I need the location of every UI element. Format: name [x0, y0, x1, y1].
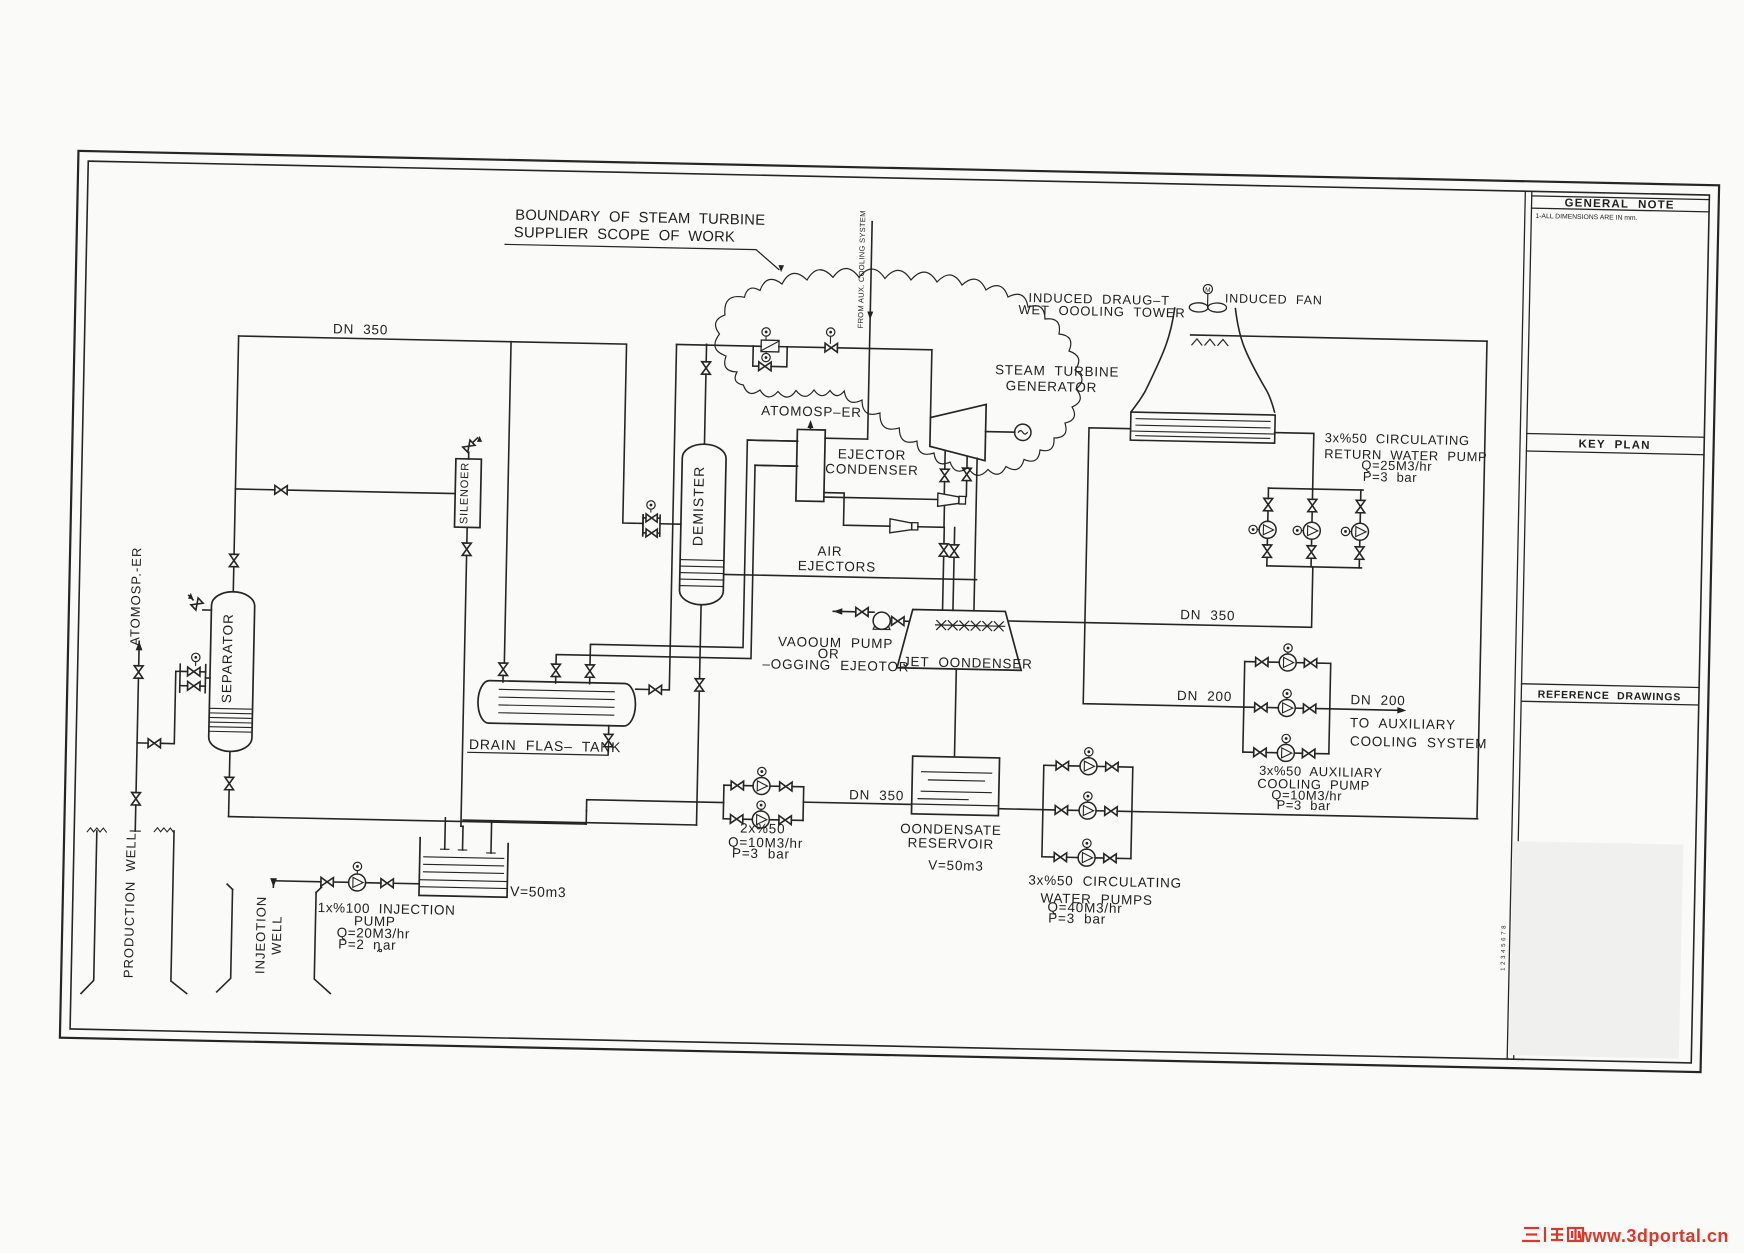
valve jet condenser inlet 1 — [939, 544, 948, 557]
valve tank drain — [604, 734, 613, 747]
pump circ b2 — [1079, 802, 1096, 819]
valve manifold branch 1 — [188, 667, 201, 676]
boundary underline and leader — [505, 244, 780, 269]
2x pump headers — [722, 785, 725, 819]
basin inlet pipe 2 (silencer drain) — [462, 826, 464, 850]
valve silencer drain — [462, 543, 471, 556]
pipe demister drain — [700, 605, 702, 679]
pipe from aux cooling — [868, 222, 873, 439]
valve 2x b2 right — [779, 816, 792, 825]
svg-text:ATOMOSP–ER: ATOMOSP–ER — [761, 403, 862, 420]
valve vacuum pump left — [856, 607, 869, 616]
valve return b2 bottom — [1307, 546, 1316, 559]
2x pump branch 2 — [723, 818, 730, 820]
pipe tower basin to left loop — [1083, 428, 1249, 707]
svg-text:DN 350: DN 350 — [333, 321, 388, 337]
control valve bypass — [753, 346, 759, 366]
valve jet condenser inlet 2 — [950, 545, 959, 558]
pipe condenser to ejector 1 — [824, 497, 938, 499]
aux pump branch 1 — [1245, 661, 1256, 663]
svg-text:DN 350: DN 350 — [849, 787, 904, 803]
valve injection 2 — [381, 879, 394, 888]
return pump headers — [1268, 488, 1363, 490]
pipe valve to vacuum pump — [868, 611, 874, 613]
pipe DN350 main header — [235, 336, 647, 523]
svg-text:DN 200: DN 200 — [1350, 692, 1405, 708]
vacuum pump discharge arrow — [833, 608, 842, 615]
valve circ b1 left — [1056, 761, 1069, 770]
demister vessel — [679, 444, 726, 605]
instrument aux b3 — [1282, 734, 1291, 743]
pipe turbine to generator — [986, 431, 1015, 434]
production well symbol — [81, 831, 97, 994]
circ pump branch 2 — [1043, 809, 1055, 811]
pipe branch to separator manifold — [137, 742, 148, 744]
basin inlet pipe 3 (demister drain) — [490, 823, 493, 853]
pipe pump to valve — [366, 882, 381, 884]
instrument on manifold — [192, 653, 201, 662]
instrument circ b1 — [1085, 748, 1094, 757]
separator hatch lines — [209, 707, 252, 710]
valve aux b2 left — [1255, 703, 1268, 712]
valve return b3 top — [1356, 500, 1365, 513]
svg-text:P=2 ȵar: P=2 ȵar — [338, 937, 396, 953]
svg-text:GENERATOR: GENERATOR — [1006, 378, 1098, 395]
production well zigzag left — [87, 828, 106, 832]
pipe tank inlet 3 — [589, 677, 591, 683]
svg-text:P=3 bar: P=3 bar — [1363, 469, 1418, 485]
return pump branch 3 — [1360, 490, 1362, 500]
valve circ b1 right — [1106, 762, 1119, 771]
pipe jet condenser drain — [954, 669, 956, 756]
return pump branch 2 — [1311, 489, 1313, 499]
pipe 2x discharge DN350 — [803, 802, 911, 804]
condensate basin V=50m3 — [419, 838, 508, 898]
pipe branch riser — [160, 671, 180, 744]
cooling tower shell — [1131, 307, 1175, 413]
pipe drain drop at 491 — [491, 821, 493, 823]
return pump branch 1 — [1267, 488, 1269, 498]
pipe vacuum pump to jet condenser — [890, 620, 891, 622]
label underline leader — [468, 752, 608, 755]
valve on production riser — [131, 792, 140, 805]
instrument 2x b2 — [757, 801, 766, 810]
instrument demister manifold — [647, 501, 656, 510]
separator manifold headers — [179, 664, 182, 692]
pipe tower hot water top line — [1191, 335, 1487, 341]
valve tank inlet 3 — [585, 665, 594, 678]
title block left double line — [1507, 191, 1525, 1059]
key plan box — [1527, 434, 1705, 438]
svg-text:STEAM TURBINE: STEAM TURBINE — [995, 362, 1120, 380]
reservoir water lines — [922, 772, 992, 773]
sheet inner border — [70, 161, 1709, 1063]
pipe valve to pump — [333, 881, 348, 883]
svg-text:P=3 bar: P=3 bar — [1048, 910, 1106, 926]
instrument return b3 — [1341, 527, 1350, 536]
svg-text:1 2 3 4 5 6 7 8: 1 2 3 4 5 6 7 8 — [1501, 925, 1508, 971]
pipe manifold to demister — [660, 523, 681, 525]
valve on atmosphere riser — [134, 666, 143, 679]
atmosphere vent arrow (left) — [136, 641, 143, 650]
pipe ejector drains to jet condenser — [943, 527, 945, 543]
valve return b2 top — [1308, 499, 1317, 512]
demister hatch lines — [680, 559, 724, 562]
pipe tank vapor to main line — [670, 344, 676, 645]
pipe reservoir to circ pumps — [998, 808, 1042, 811]
svg-text:KEY PLAN: KEY PLAN — [1578, 438, 1650, 452]
valve main steam — [825, 343, 838, 352]
svg-text:EJECTOR: EJECTOR — [838, 446, 907, 462]
pipe injection line — [274, 880, 321, 883]
aux pump branch 2 — [1244, 706, 1255, 708]
svg-text:PRODUCTION WELL: PRODUCTION WELL — [121, 832, 139, 978]
svg-text:V=50m3: V=50m3 — [928, 857, 984, 873]
pipe turbine drain stub 1 — [944, 451, 946, 469]
pipe turbine exhaust — [974, 458, 977, 610]
drain flash tank inner lines — [499, 689, 614, 691]
valve manifold branch 2 — [188, 681, 201, 690]
valve return b1 bottom — [1263, 545, 1272, 558]
valve demister riser — [702, 362, 711, 375]
production well zigzag right — [154, 828, 173, 832]
valve return b3 bottom — [1355, 547, 1364, 560]
valve aux b1 right — [1304, 658, 1317, 667]
svg-text:CONDENSER: CONDENSER — [825, 461, 919, 478]
demister manifold — [642, 515, 644, 536]
circ pump branch 3 — [1042, 856, 1054, 858]
valve tank right — [649, 685, 662, 694]
steam turbine — [930, 403, 987, 460]
instrument main steam valve — [826, 328, 835, 337]
valve 2x b1 left — [731, 781, 744, 790]
pipe basin line to 2x pumps — [586, 800, 723, 814]
svg-text:3x%50 CIRCULATING: 3x%50 CIRCULATING — [1325, 430, 1470, 448]
pump circ b3 — [1078, 849, 1095, 866]
valve circ b3 right — [1104, 854, 1117, 863]
pipe right loop down — [1477, 341, 1487, 819]
sheet outer border — [60, 151, 1719, 1072]
svg-text:JET OONDENSER: JET OONDENSER — [903, 654, 1033, 672]
valve vacuum pump right — [892, 617, 905, 626]
pipe to production well — [134, 805, 137, 831]
pipe separator top riser — [232, 567, 235, 592]
svg-text:V=50m3: V=50m3 — [510, 883, 566, 900]
pipe ejector 2 discharge — [918, 506, 945, 527]
instrument aux b1 — [1284, 644, 1293, 653]
tower basin fill lines — [1136, 419, 1270, 422]
pipe return pumps to basin — [1273, 433, 1313, 489]
pipe DN350 to demister manifold — [642, 515, 644, 524]
pipe demister drain run — [463, 820, 696, 825]
svg-text:DN 200: DN 200 — [1177, 688, 1232, 704]
svg-text:DEMISTER: DEMISTER — [689, 466, 707, 547]
pump 2x b1 — [753, 777, 770, 794]
silencer vessel — [454, 459, 481, 528]
pipe jet condenser DN350 to tower — [1009, 562, 1312, 628]
pipe merge jog — [585, 811, 587, 824]
instrument circ b2 — [1084, 792, 1093, 801]
separator manifold branch 1 — [180, 670, 187, 672]
valve tank inlet 2 — [551, 664, 560, 677]
cloud boundary of supplier scope — [712, 266, 1084, 478]
valve on silencer line — [275, 485, 288, 494]
pump 2x b2 — [752, 811, 769, 828]
tower basin — [1130, 412, 1275, 443]
separator relief valve — [203, 609, 211, 611]
pump circ b1 — [1080, 758, 1097, 775]
valve demister manifold 2 — [646, 529, 657, 537]
condensate reservoir — [911, 756, 999, 816]
svg-text:RESERVOIR: RESERVOIR — [907, 835, 994, 852]
valve circ b3 left — [1054, 853, 1067, 862]
pipe condenser to ejector 2 — [823, 493, 890, 527]
injection well symbol — [217, 889, 233, 992]
svg-text:GENERAL NOTE: GENERAL NOTE — [1564, 197, 1674, 211]
pipe aux discharge DN200 — [1330, 709, 1403, 711]
svg-text:AIR: AIR — [817, 543, 842, 559]
ejector condenser vent arrow — [809, 426, 811, 429]
aux pump branch 3 — [1243, 751, 1254, 753]
tower spray carets — [1192, 339, 1202, 345]
instrument injection pump — [353, 862, 362, 871]
air ejector 1 — [938, 493, 959, 507]
svg-text:SILENOER: SILENOER — [458, 462, 471, 524]
induced fan blades — [1189, 303, 1208, 313]
svg-text:DN 350: DN 350 — [1180, 607, 1235, 623]
instrument circ b3 — [1083, 839, 1092, 848]
title block grey area — [1509, 841, 1683, 1059]
pipe aux to ejector condenser — [825, 437, 867, 440]
instrument 2x b1 — [758, 767, 767, 776]
valve circ b2 right — [1105, 807, 1118, 816]
pipe atmosphere riser — [136, 678, 138, 792]
valve return b1 top — [1264, 498, 1273, 511]
svg-text:M: M — [1205, 287, 1211, 294]
svg-text:www.3dportal.cn: www.3dportal.cn — [1577, 1226, 1729, 1246]
svg-text:P=3 bar: P=3 bar — [1276, 797, 1331, 813]
silencer relief valve — [468, 452, 470, 459]
general note box — [1532, 196, 1710, 200]
valve aux b3 left — [1254, 748, 1267, 757]
valve aux b2 right — [1303, 704, 1316, 713]
valve separator drain — [225, 777, 234, 790]
air ejector 2 — [890, 519, 912, 533]
instrument above control valve — [762, 328, 771, 337]
svg-text:INJEOTION: INJEOTION — [252, 896, 269, 975]
pipe manifold to separator shell — [205, 677, 209, 679]
pipe silencer drain — [466, 527, 468, 543]
pipe ejector drain A — [747, 440, 797, 441]
basin water lines — [424, 857, 504, 859]
pump aux b2 — [1278, 699, 1295, 716]
pipe circ discharge — [1132, 812, 1478, 819]
svg-text:TO AUXILIARY: TO AUXILIARY — [1350, 715, 1456, 732]
circ pump headers — [1042, 765, 1044, 856]
valve separator top — [229, 554, 238, 567]
valve demister drain — [695, 679, 704, 692]
watermark 3dportal — [1522, 1227, 1583, 1242]
2x pump branch 1 — [724, 784, 731, 786]
pipe main steam line — [677, 344, 762, 346]
valve injection 1 — [321, 877, 334, 886]
valve demister manifold 1 — [646, 514, 657, 522]
valve turbine stub 2 — [962, 468, 971, 481]
jet condenser vessel — [897, 609, 1022, 670]
svg-text:P=3 bar: P=3 bar — [732, 845, 790, 861]
induced fan motor — [1203, 284, 1212, 293]
drain flash tank vessel — [478, 680, 636, 726]
pipe ejector drain B — [755, 464, 797, 467]
pipe silencer drain to basin — [461, 825, 463, 827]
control valve — [761, 340, 779, 352]
instrument return b2 — [1293, 526, 1302, 535]
vacuum pump — [873, 612, 891, 630]
injection line arrow — [270, 878, 277, 887]
pipe steam to turbine — [930, 350, 931, 418]
svg-text:COOLING SYSTEM: COOLING SYSTEM — [1350, 734, 1488, 752]
svg-text:SEPARATOR: SEPARATOR — [219, 613, 236, 703]
pipe valve to tank — [502, 675, 504, 681]
pump aux b1 — [1279, 654, 1296, 671]
pipe demister side nozzle — [724, 574, 977, 579]
pump aux b3 — [1277, 744, 1294, 761]
pipe separator drain — [228, 751, 231, 777]
instrument below control valve — [762, 353, 771, 362]
pump return b1 — [1259, 521, 1276, 538]
valve tank inlet 1 — [499, 663, 508, 676]
svg-text:WELL: WELL — [269, 915, 285, 955]
valve aux b3 right — [1302, 749, 1315, 758]
injection pump — [348, 874, 365, 891]
pipe tank drain — [608, 726, 610, 735]
instrument aux b2 — [1283, 689, 1292, 698]
instrument return b1 — [1249, 525, 1258, 534]
valve aux b1 left — [1256, 657, 1269, 666]
pump return b2 — [1303, 522, 1320, 539]
valve on separator branch — [148, 739, 161, 748]
separator vessel — [208, 591, 255, 752]
pipe demister top riser — [704, 374, 705, 444]
pipe valve to basin — [393, 882, 419, 885]
generator — [1014, 424, 1031, 441]
svg-text:INDUCED FAN: INDUCED FAN — [1225, 291, 1323, 307]
ejector condenser vessel — [796, 429, 825, 501]
pipe separator to silencer — [235, 488, 274, 491]
pipe tank right vapor — [636, 688, 649, 690]
pipe tank inlet 2 — [555, 677, 557, 683]
pipe turbine drain stub 2 — [966, 457, 968, 468]
svg-text:–OGGING EJEOTOR: –OGGING EJEOTOR — [762, 656, 909, 674]
valve turbine stub 1 — [940, 469, 949, 482]
svg-text:EJECTORS: EJECTORS — [798, 558, 876, 575]
pump return b3 — [1351, 523, 1368, 540]
aux pump headers — [1243, 662, 1245, 752]
valve circ b2 left — [1055, 806, 1068, 815]
valve bypass — [759, 362, 772, 371]
separator manifold branch 2 — [180, 685, 188, 687]
pipe DN350 branch riser to tank — [504, 342, 511, 663]
svg-text:ATOMOSP.-ER: ATOMOSP.-ER — [127, 546, 144, 645]
valve 2x b1 right — [780, 782, 793, 791]
valve 2x b2 left — [730, 815, 743, 824]
reference drawings box — [1522, 684, 1700, 688]
circ pump branch 1 — [1044, 764, 1056, 766]
basin inlet pipe 1 — [444, 821, 447, 849]
jet condenser spray line — [936, 625, 1005, 626]
pipe separator drain run — [229, 817, 587, 824]
